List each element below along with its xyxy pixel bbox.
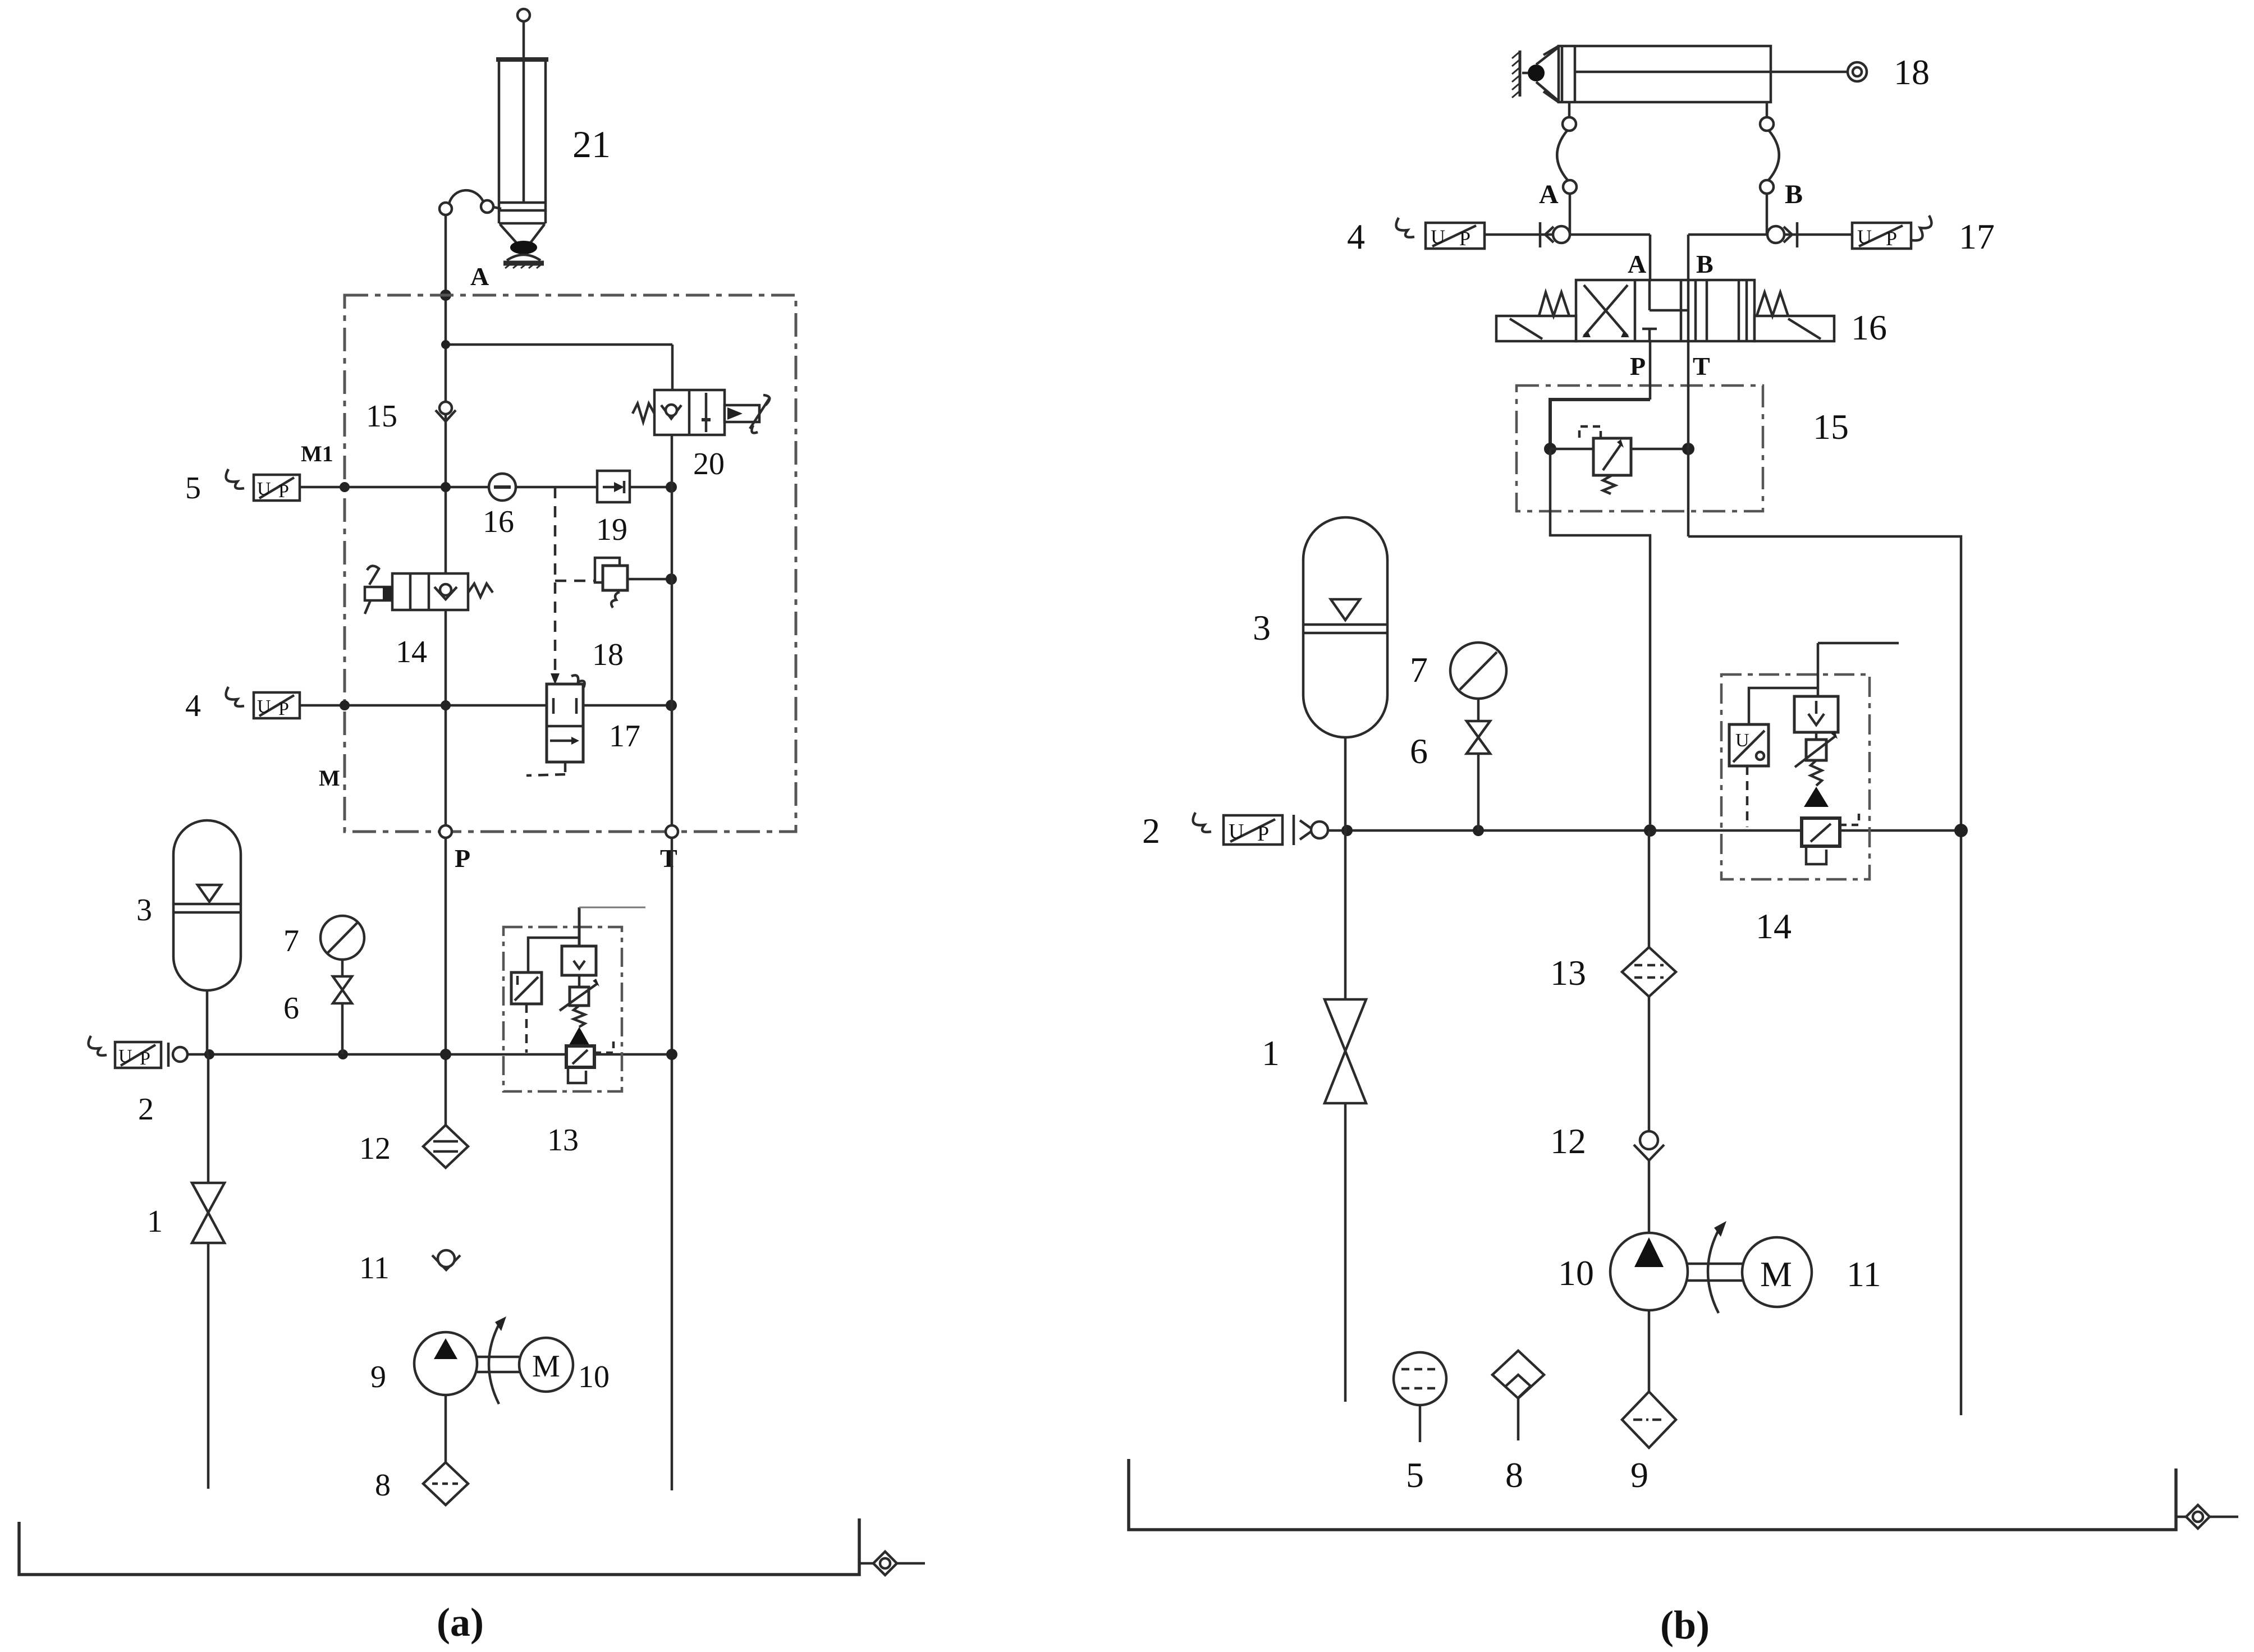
valve 14	[365, 566, 493, 614]
pump 9	[414, 1332, 477, 1395]
svg-text:P: P	[140, 1048, 150, 1069]
valve 17	[526, 675, 585, 775]
svg-text:15: 15	[366, 399, 397, 434]
svg-text:12: 12	[1550, 1121, 1586, 1161]
cylinder 21 rod	[523, 21, 525, 204]
cylinder 18 rod	[1575, 62, 1867, 81]
cylinder 21 cone and suction pad	[500, 224, 544, 268]
svg-text:13: 13	[1550, 953, 1586, 993]
directional valve 16 body	[1576, 280, 1754, 341]
svg-text:12: 12	[359, 1131, 391, 1166]
valve 16 left spring	[1539, 292, 1569, 316]
port A hose	[1557, 102, 1577, 235]
svg-text:M: M	[319, 765, 340, 791]
svg-text:P: P	[1630, 352, 1646, 380]
wire M1 line	[299, 481, 677, 493]
tank drain valve (a)	[859, 1552, 925, 1575]
motor 11 (b)	[1742, 1237, 1812, 1307]
test point 2 (b)	[1193, 813, 1328, 846]
test point 4 (b)	[1396, 218, 1485, 250]
svg-text:A: A	[1539, 180, 1559, 209]
check valve right	[1767, 222, 1797, 247]
cylinder 18 clevis mount	[1512, 46, 1559, 102]
rotation arrow	[489, 1316, 506, 1404]
box 15 dash-dot	[1517, 386, 1763, 511]
svg-text:5: 5	[1406, 1455, 1424, 1495]
svg-text:9: 9	[370, 1360, 386, 1394]
svg-text:M: M	[532, 1349, 560, 1384]
assembly 13 solenoid square	[511, 938, 579, 1004]
svg-text:16: 16	[1851, 308, 1887, 347]
valve 16 left solenoid	[1496, 316, 1576, 341]
svg-text:15: 15	[1813, 407, 1849, 447]
assembly 13 pilot valve square	[562, 946, 596, 975]
cylinder 21 rod end circle	[517, 9, 530, 21]
assembly 13 relief valve	[566, 1039, 613, 1067]
svg-text:19: 19	[596, 512, 627, 547]
svg-text:P: P	[278, 699, 289, 719]
box 14 drain bracket	[1806, 846, 1826, 864]
wire T vertical line	[671, 435, 674, 1490]
svg-text:P: P	[1257, 822, 1269, 846]
wire shut-off branch	[207, 1054, 210, 1489]
strainer 9 (b)	[1622, 1392, 1676, 1448]
svg-text:M: M	[1760, 1254, 1792, 1294]
cylinder 21 body	[496, 59, 548, 210]
svg-text:P: P	[1459, 227, 1470, 250]
pump 10 (b)	[1610, 1233, 1688, 1310]
gauge 7 (b)	[1450, 643, 1506, 721]
svg-text:10: 10	[578, 1360, 610, 1394]
svg-text:T: T	[1693, 352, 1710, 380]
svg-text:14: 14	[396, 635, 427, 669]
assembly 13 solenoid drain dashed	[525, 1004, 528, 1053]
svg-text:(a): (a)	[437, 1600, 484, 1645]
svg-text:5: 5	[185, 471, 201, 506]
svg-text:7: 7	[283, 924, 299, 958]
valve 16 crossed arrows	[1582, 285, 1629, 337]
valve 16 right solenoid	[1754, 316, 1834, 341]
needle valve 6 (b)	[1467, 721, 1490, 830]
svg-text:3: 3	[1253, 608, 1271, 648]
valve 20	[633, 390, 770, 435]
assembly 13 dash-dot box	[503, 927, 622, 1091]
wire filter to check	[1648, 997, 1651, 1130]
shut-off valve 1	[192, 1183, 225, 1243]
wire accumulator (b)	[1344, 737, 1347, 830]
svg-text:11: 11	[359, 1251, 390, 1286]
check valve left	[1540, 222, 1570, 247]
svg-text:13: 13	[547, 1123, 579, 1158]
pump shaft (b)	[1688, 1264, 1742, 1281]
assembly 13 drain bracket	[568, 1067, 586, 1083]
wire accumulator to 2-line	[206, 990, 209, 1054]
wire P out of box 15	[1550, 449, 1650, 824]
svg-text:7: 7	[1410, 650, 1428, 690]
wire shut-off branch (b)	[1344, 830, 1347, 1402]
filter 13 (b)	[1622, 947, 1676, 997]
svg-text:20: 20	[693, 447, 725, 481]
manifold dash-dot box (a)	[345, 295, 796, 832]
shut-off valve 1 (b)	[1325, 999, 1366, 1103]
box 14 dash-dot	[1721, 674, 1870, 879]
flow meter 16	[489, 474, 516, 501]
svg-text:2: 2	[1142, 811, 1160, 851]
filter 12	[423, 1125, 468, 1168]
svg-text:6: 6	[283, 991, 299, 1026]
dashed pilot line from M1	[555, 487, 598, 676]
svg-text:P: P	[278, 481, 289, 502]
wire branch to valve 20	[441, 340, 672, 390]
tank drain valve (b)	[2176, 1505, 2238, 1529]
svg-text:P: P	[1886, 227, 1897, 250]
test point 2 (U/P)	[89, 1036, 187, 1069]
svg-text:18: 18	[592, 637, 624, 672]
check valve 12 (b)	[1634, 1131, 1664, 1160]
svg-text:4: 4	[1347, 217, 1365, 256]
wire P into box 15	[1544, 341, 1650, 455]
test point 4 (U/P)	[226, 687, 300, 719]
cylinder 18 body	[1559, 46, 1771, 102]
svg-text:4: 4	[185, 689, 201, 723]
tank (a)	[19, 1518, 859, 1575]
pilot arrow into valve 17	[551, 673, 560, 685]
valve 16 right spring	[1757, 292, 1788, 316]
motor 10	[519, 1338, 573, 1392]
check valve 15	[436, 402, 456, 421]
svg-text:6: 6	[1410, 731, 1428, 771]
assembly 13 throttle	[560, 975, 599, 1011]
svg-text:9: 9	[1630, 1455, 1648, 1495]
assembly 13 spring	[574, 1006, 585, 1027]
svg-text:U: U	[257, 696, 271, 717]
wire main vertical P/A line	[445, 215, 447, 1125]
svg-text:1: 1	[147, 1204, 163, 1239]
test point 17 (U/P)	[1852, 215, 1931, 250]
svg-text:18: 18	[1894, 52, 1930, 92]
port B hose	[1760, 102, 1779, 235]
wire M line	[300, 700, 677, 711]
port T circle on box edge	[666, 825, 678, 838]
svg-text:10: 10	[1558, 1253, 1594, 1293]
check valve 11	[432, 1250, 460, 1270]
test point 5 (U/P)	[226, 469, 300, 502]
pump shaft	[477, 1357, 519, 1372]
svg-text:B: B	[1696, 250, 1714, 278]
cylinder 21 lower cap	[499, 210, 546, 223]
svg-text:17: 17	[1959, 217, 1995, 256]
svg-text:11: 11	[1847, 1254, 1881, 1294]
relief valve 18	[595, 558, 677, 608]
box 14 spring	[1811, 760, 1822, 786]
wire pump to strainer (b)	[1648, 1310, 1651, 1392]
svg-text:B: B	[1785, 180, 1803, 209]
svg-text:3: 3	[136, 893, 152, 928]
breather 5 (b)	[1394, 1352, 1446, 1442]
wire 2-line horizontal (a)	[187, 1049, 677, 1060]
svg-text:P: P	[455, 844, 470, 873]
rotation arrow (b)	[1708, 1221, 1726, 1313]
svg-text:8: 8	[1505, 1455, 1523, 1495]
box 14 solenoid drain dashed	[1746, 766, 1749, 827]
box 14 check triangle	[1804, 787, 1829, 807]
tank (b)	[1129, 1459, 2176, 1530]
relief valve 15	[1579, 426, 1631, 494]
assembly 13 entry lines	[579, 907, 645, 948]
svg-text:U: U	[1857, 226, 1872, 248]
svg-text:U: U	[118, 1046, 132, 1067]
orifice check 19	[597, 471, 630, 502]
wire A test line	[1485, 235, 1650, 280]
wire pump branch upper	[1648, 830, 1651, 947]
wire T line (b)	[1688, 341, 1961, 1415]
box 14 relief valve	[1802, 811, 1859, 846]
svg-text:A: A	[470, 262, 489, 291]
valve 16 center blocked ports	[1642, 280, 1688, 341]
svg-text:14: 14	[1756, 906, 1792, 946]
needle valve 6	[333, 976, 352, 1054]
valve 16 parallel position	[1696, 280, 1747, 341]
svg-text:T: T	[660, 844, 677, 873]
wire pump to strainer	[445, 1395, 447, 1462]
wire main line (b)	[1327, 824, 1968, 837]
svg-text:1: 1	[1262, 1033, 1280, 1073]
svg-text:17: 17	[609, 719, 640, 754]
svg-text:U: U	[1431, 226, 1445, 248]
svg-text:21: 21	[572, 123, 611, 166]
node A	[440, 290, 451, 301]
strainer 8	[423, 1462, 468, 1505]
svg-text:2: 2	[138, 1092, 154, 1127]
svg-text:A: A	[1628, 250, 1646, 278]
box 14 solenoid square	[1729, 688, 1818, 766]
svg-text:U: U	[1229, 820, 1244, 843]
svg-text:16: 16	[483, 504, 514, 539]
accumulator 3 (b)	[1303, 517, 1387, 737]
svg-text:M1: M1	[301, 441, 333, 466]
gauge 7	[320, 916, 364, 976]
svg-text:(b): (b)	[1660, 1603, 1710, 1648]
wire check to pump	[1648, 1160, 1651, 1233]
wire through relief 15	[1550, 443, 1694, 455]
box 14 throttle	[1795, 731, 1838, 767]
svg-text:8: 8	[375, 1468, 391, 1503]
hose from cylinder to node A	[439, 190, 501, 215]
assembly 13 check triangle	[569, 1027, 589, 1045]
filter 8 (b)	[1492, 1351, 1544, 1440]
svg-text:U: U	[257, 479, 271, 499]
accumulator 3	[173, 820, 241, 990]
port P circle on box edge	[439, 825, 452, 838]
box 14 entry lines	[1818, 643, 1899, 699]
box 14 pilot valve square	[1794, 696, 1838, 732]
wire B test line	[1688, 235, 1852, 280]
